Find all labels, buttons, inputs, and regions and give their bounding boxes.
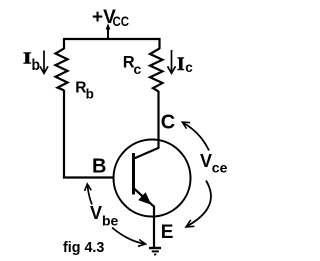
resistor Rc [150, 49, 163, 92]
wire left branch upper [63, 38, 65, 49]
wire base horizontal [63, 176, 115, 178]
arrow Vce lower arc to E [186, 181, 211, 228]
label Rb [75, 80, 94, 102]
label +Vcc [92, 7, 129, 29]
label Vbe [90, 203, 119, 229]
svg-text:ce: ce [212, 160, 228, 176]
wire emitter lead [153, 206, 155, 249]
resistor Rb [56, 49, 68, 91]
svg-text:C: C [161, 112, 175, 134]
wire collector lead [157, 91, 159, 149]
power +Vcc arrow tick [106, 23, 111, 38]
svg-text:B: B [92, 156, 106, 178]
svg-text:V: V [200, 151, 212, 171]
wire left branch lower [63, 90, 65, 178]
transistor Q1 emitter slant [134, 189, 154, 207]
transistor Q1 body circle [114, 140, 191, 217]
transistor Q1 emitter arrowhead [138, 192, 151, 205]
label Ib [23, 48, 40, 74]
arrow Ib current direction [40, 51, 48, 74]
svg-text:I: I [177, 55, 185, 75]
label Rc [123, 54, 142, 77]
arrow Vbe up to B [85, 184, 93, 205]
wire top rail Vcc [64, 38, 160, 40]
svg-text:be: be [102, 213, 119, 229]
wire right branch upper [158, 38, 160, 49]
transistor Q1 collector slant [134, 148, 159, 159]
svg-text:c: c [134, 61, 142, 77]
svg-text:c: c [185, 60, 193, 75]
transistor Q1 base bar [132, 153, 135, 195]
svg-text:E: E [161, 222, 174, 243]
label Ic [177, 55, 193, 75]
svg-text:V: V [90, 203, 102, 223]
svg-text:fig 4.3: fig 4.3 [63, 240, 104, 256]
arrow Vce upper arc to C [182, 122, 209, 150]
label Vce [200, 151, 228, 176]
svg-text:b: b [32, 57, 41, 74]
arrow Ic current direction [168, 50, 176, 73]
ground [149, 248, 161, 255]
arrow Vbe down-right to E [112, 228, 146, 247]
svg-text:CC: CC [113, 14, 130, 29]
svg-text:b: b [86, 87, 94, 102]
